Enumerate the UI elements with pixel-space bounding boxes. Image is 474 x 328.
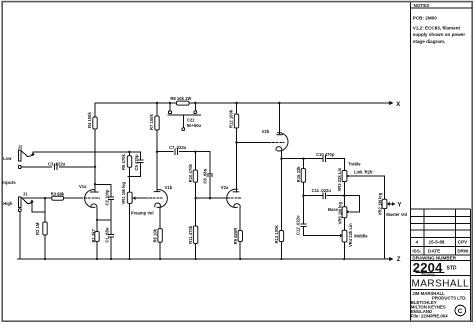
- svg-text:VR2 1M log: VR2 1M log: [377, 192, 382, 215]
- svg-text:High: High: [3, 201, 13, 206]
- svg-text:DATE: DATE: [428, 249, 440, 254]
- svg-text:supply shown on power: supply shown on power: [413, 32, 466, 37]
- svg-text:4: 4: [416, 240, 419, 245]
- svg-text:Y: Y: [398, 203, 402, 209]
- svg-text:C3 .022u: C3 .022u: [48, 162, 66, 167]
- svg-text:V1a: V1a: [79, 184, 87, 189]
- svg-text:V1,2: ECC83, filament: V1,2: ECC83, filament: [413, 25, 461, 30]
- svg-text:R7 100k: R7 100k: [149, 113, 154, 130]
- svg-text:R6 10k: R6 10k: [153, 228, 158, 242]
- svg-text:R11 470k: R11 470k: [188, 225, 193, 244]
- svg-text:R10 470k: R10 470k: [188, 163, 193, 182]
- svg-text:Low: Low: [3, 156, 12, 161]
- svg-text:VR4 22k Lin: VR4 22k Lin: [348, 223, 353, 247]
- svg-text:ISS.: ISS.: [412, 249, 421, 254]
- svg-text:Master Vol: Master Vol: [386, 212, 407, 217]
- svg-text:C12 .022u: C12 .022u: [296, 215, 301, 235]
- svg-text:Link 'R2k': Link 'R2k': [354, 170, 373, 175]
- svg-text:15-5-88: 15-5-88: [429, 240, 445, 245]
- svg-text:C7 .022u: C7 .022u: [169, 145, 187, 150]
- svg-text:V2b: V2b: [262, 129, 270, 134]
- svg-text:Treble: Treble: [348, 161, 361, 166]
- svg-text:X: X: [396, 102, 400, 108]
- svg-text:R8 10k 1W: R8 10k 1W: [170, 96, 191, 101]
- svg-text:Inputs: Inputs: [2, 180, 16, 185]
- svg-text:R1 2k7: R1 2k7: [91, 228, 96, 242]
- svg-text:R5 470k: R5 470k: [121, 153, 126, 170]
- svg-text:R2 1M: R2 1M: [35, 222, 40, 235]
- svg-text:R9 820R: R9 820R: [233, 228, 238, 245]
- svg-text:Preamp: Preamp: [422, 272, 436, 276]
- svg-text:J2: J2: [18, 145, 23, 150]
- svg-text:VR1 1M log: VR1 1M log: [121, 181, 126, 204]
- svg-text:NOTES: NOTES: [414, 3, 430, 8]
- svg-text:Preamp Vol: Preamp Vol: [131, 211, 154, 216]
- svg-text:C5 470p: C5 470p: [134, 154, 139, 171]
- svg-text:stage diagram.: stage diagram.: [413, 39, 445, 44]
- svg-text:C: C: [458, 308, 463, 315]
- svg-text:R15 33k: R15 33k: [296, 166, 301, 183]
- svg-text:R4 100k: R4 100k: [87, 111, 92, 128]
- svg-text:C10 470p: C10 470p: [316, 152, 335, 157]
- svg-text:R3 68k: R3 68k: [51, 192, 65, 197]
- svg-text:C8 .68u: C8 .68u: [203, 168, 208, 183]
- svg-text:R12 100k: R12 100k: [228, 109, 233, 128]
- svg-text:MARSHALL: MARSHALL: [412, 279, 470, 290]
- svg-text:Middle: Middle: [354, 233, 368, 238]
- svg-text:VR3 22k Lin: VR3 22k Lin: [337, 167, 342, 191]
- svg-text:V1b: V1b: [165, 185, 173, 190]
- svg-text:STD: STD: [447, 265, 457, 271]
- svg-text:DRW.: DRW.: [457, 249, 469, 254]
- svg-text:C2 100p: C2 100p: [104, 189, 109, 206]
- svg-text:PCB: 2M00: PCB: 2M00: [413, 15, 437, 20]
- svg-text:CPV: CPV: [458, 240, 468, 245]
- svg-text:File: 2204PRE.004: File: 2204PRE.004: [411, 314, 448, 319]
- svg-text:PRODUCTS LTD.: PRODUCTS LTD.: [432, 295, 467, 300]
- svg-text:50+50u: 50+50u: [187, 123, 202, 128]
- svg-text:C21: C21: [187, 117, 195, 122]
- svg-text:R13 100k: R13 100k: [274, 225, 279, 244]
- svg-text:VR5 1M log: VR5 1M log: [337, 201, 342, 224]
- svg-text:V2a: V2a: [221, 185, 229, 190]
- svg-text:C1 .68u: C1 .68u: [105, 227, 110, 242]
- svg-text:Z: Z: [397, 257, 401, 263]
- svg-text:J1: J1: [23, 191, 28, 196]
- svg-text:C11 .022u: C11 .022u: [312, 188, 332, 193]
